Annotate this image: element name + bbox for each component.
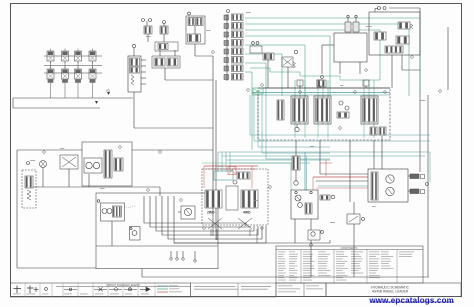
svg-text:40/40B WHEEL LOADER: 40/40B WHEEL LOADER xyxy=(372,290,409,294)
wire: long lower horizontal to K xyxy=(174,240,330,243)
green valve left of manifold xyxy=(253,88,263,94)
title small text xyxy=(278,285,293,288)
table text col2b xyxy=(318,251,326,254)
wire: grid mid bus xyxy=(44,65,102,67)
K below valve xyxy=(308,230,320,240)
green lines from column E to right xyxy=(245,17,420,19)
green verticals through spools xyxy=(294,80,296,124)
valve above manifold xyxy=(317,80,326,87)
wire: G box drop to manifold xyxy=(391,55,393,88)
wire: left lower verticals xyxy=(16,150,18,268)
wire: H box stems xyxy=(339,62,341,74)
legend symbol: double cross xyxy=(29,286,31,294)
table text col1a xyxy=(278,251,286,254)
manifold bottom elements xyxy=(295,127,299,131)
callout balloons xyxy=(107,90,110,93)
legend symbol: X on line xyxy=(94,288,107,290)
note cell 1 xyxy=(191,283,277,297)
circle at manifold bottom right xyxy=(439,90,442,93)
manifold top ports xyxy=(297,80,303,86)
wire: solenoid drop xyxy=(111,221,113,246)
green feed to K xyxy=(290,163,292,190)
teal box in M xyxy=(214,171,233,180)
legend symbol: arrow xyxy=(140,287,150,291)
red lines central M xyxy=(204,165,258,167)
cluster: top box D xyxy=(186,16,205,44)
legend strip border xyxy=(11,283,191,297)
legend symbol: diamond on line xyxy=(109,288,122,290)
table text col2 xyxy=(303,251,310,254)
below-manifold valve xyxy=(292,156,300,170)
teal nested L from manifold bottom xyxy=(250,95,430,135)
legend micro labels xyxy=(13,293,21,296)
table text col3 xyxy=(336,251,344,254)
wire: feeds into J xyxy=(320,173,368,175)
table text col5 xyxy=(399,251,414,254)
wire: left stack drop xyxy=(133,92,135,128)
legend colored line samples xyxy=(157,285,168,287)
wire: box inner horizontal xyxy=(96,245,218,247)
components table xyxy=(276,246,423,283)
pump circle xyxy=(40,161,47,168)
cluster: F small valves xyxy=(252,42,255,45)
wire: grid verticals xyxy=(50,62,52,68)
wire: right tall verticals xyxy=(419,8,421,172)
wire: mid long verticals xyxy=(212,56,214,236)
big lower-center box xyxy=(96,193,218,269)
teal drops to M xyxy=(217,152,219,172)
micro labels xyxy=(146,35,151,38)
cluster: G top-right valve box xyxy=(369,12,420,55)
legend symbol: small circle xyxy=(45,288,48,291)
cluster: K block xyxy=(291,190,318,219)
wire: left bus xyxy=(13,97,133,99)
cluster: H plain box xyxy=(334,33,367,62)
table text col1b xyxy=(289,251,295,254)
L big box xyxy=(82,142,132,186)
cluster: top-left pilot valve grid xyxy=(47,51,54,61)
table text col4 xyxy=(369,251,379,254)
teal horizontals center xyxy=(218,151,430,153)
wire: stair fan xyxy=(144,196,246,226)
wire: c-cluster links xyxy=(159,50,161,56)
red lines K to J xyxy=(313,176,368,178)
cluster: mid-top valves C xyxy=(142,19,145,22)
green staircase into manifold xyxy=(250,68,380,80)
red check valve near M xyxy=(228,167,236,175)
red marks near manifold xyxy=(325,160,327,176)
M bottom drops xyxy=(210,229,212,236)
title small text 2 xyxy=(306,285,319,288)
wire: drops below K and J xyxy=(310,240,312,277)
J below valve xyxy=(347,214,360,224)
L solenoid box xyxy=(101,203,125,221)
table text col4b xyxy=(381,251,389,254)
teal to J xyxy=(318,185,368,187)
svg-text:4WD: 4WD xyxy=(243,211,251,215)
legend symbol: cross xyxy=(16,286,18,294)
cluster: left valve stack B xyxy=(128,56,141,92)
cluster: main loader valve manifold I xyxy=(258,88,390,140)
teal bus on manifold xyxy=(252,92,390,94)
teal feed to K xyxy=(304,152,306,190)
legend header CIRCUIT DIAGRAM LEGEND xyxy=(56,286,191,288)
arrow marks near bus xyxy=(95,101,98,104)
L gauge box xyxy=(84,158,102,173)
legend symbol: circle on line xyxy=(64,288,77,290)
L small box below xyxy=(130,227,141,241)
cluster: L left-middle relief xyxy=(22,170,36,208)
bottom drops with diamonds xyxy=(170,251,172,257)
cluster: central manifold M 4WD xyxy=(202,169,268,225)
svg-text:www.epcatalogs.com: www.epcatalogs.com xyxy=(368,296,454,305)
M left motor xyxy=(181,206,195,219)
wire: grid row buses xyxy=(44,55,102,57)
cluster: J steering assembly xyxy=(368,169,408,202)
table text col3b xyxy=(351,251,363,254)
wire: L2 to mid xyxy=(132,149,213,151)
svg-text:COMPONENTS: COMPONENTS xyxy=(341,248,358,250)
L valve with X xyxy=(60,155,78,169)
svg-text:2WD: 2WD xyxy=(207,211,215,215)
legend symbol: circle dot on line xyxy=(124,288,137,290)
wire: left cluster bus xyxy=(30,186,160,188)
title block xyxy=(326,283,461,297)
wire: top right link xyxy=(389,7,420,9)
green drops xyxy=(419,18,421,92)
cluster: tall solenoid column E xyxy=(227,10,230,13)
manifold check valves xyxy=(339,101,343,105)
note cell divider xyxy=(237,283,239,297)
wire: bottom return xyxy=(142,276,429,278)
